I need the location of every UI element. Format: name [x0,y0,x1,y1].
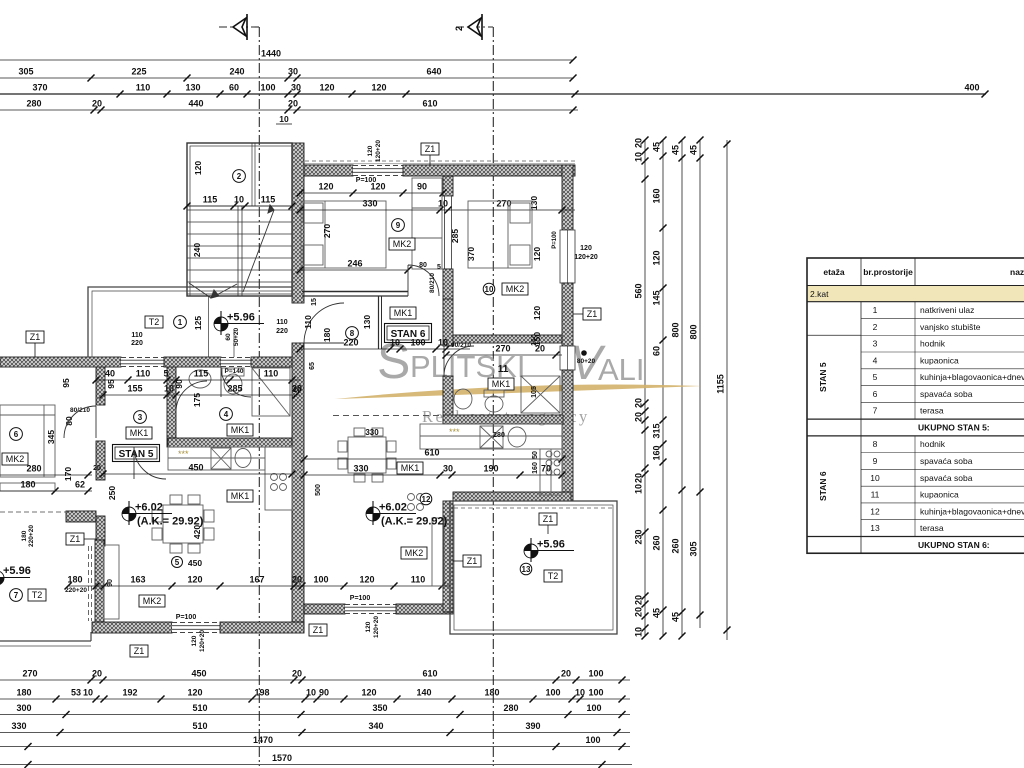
wall stan5 interior horiz [168,438,292,447]
dim top line D [0,99,578,114]
svg-text:***: *** [449,427,460,437]
svg-text:285: 285 [450,229,460,243]
label T2 terrace13 [544,570,562,582]
svg-text:150: 150 [531,334,538,346]
svg-text:330: 330 [11,721,26,731]
svg-text:20: 20 [634,412,644,422]
svg-text:kupaonica: kupaonica [920,355,959,365]
room number 6 [10,428,23,441]
svg-text:100: 100 [545,688,560,698]
svg-text:90: 90 [107,579,114,587]
dim right line 1 [634,137,649,640]
section line 2 vertical [492,27,494,766]
svg-text:Z1: Z1 [543,514,554,524]
terrace1 ext line a [208,296,210,357]
svg-text:P=100: P=100 [350,595,371,602]
svg-text:120+20: 120+20 [199,630,206,652]
svg-text:13: 13 [522,565,531,574]
svg-text:9: 9 [873,456,878,466]
svg-text:175: 175 [192,393,202,407]
svg-text:167: 167 [249,575,264,585]
room number 8 [346,327,359,340]
svg-text:220: 220 [276,328,288,335]
svg-text:11: 11 [498,364,509,375]
svg-text:440: 440 [188,99,203,109]
svg-text:MK2: MK2 [393,239,412,249]
dim top small 10 [276,114,292,124]
svg-text:10: 10 [279,114,289,124]
wall stan6 right lower vertical [443,501,453,612]
svg-text:260: 260 [652,535,662,550]
svg-text:Z1: Z1 [587,309,598,319]
dashed line hall8 [333,415,443,417]
svg-text:7: 7 [14,591,19,600]
svg-text:90: 90 [417,182,427,192]
dim apt6 180-62 [0,480,92,495]
svg-text:140: 140 [416,688,431,698]
label Z1 terrace13 top [539,513,557,525]
svg-text:10: 10 [438,338,448,348]
svg-text:2: 2 [454,26,464,31]
wall stub apt6 bottom [66,511,96,522]
svg-text:110: 110 [136,83,151,93]
svg-text:vanjsko stubište: vanjsko stubište [920,322,981,332]
svg-text:120: 120 [370,182,385,192]
wall stan6 bottom seg b [396,604,453,614]
door P=100 stan5 bottom [172,622,220,633]
dim stairs 115-10-115 [184,195,296,210]
dim bottom row 3 [0,703,630,718]
svg-text:8: 8 [873,439,878,449]
room number 1 terrace [174,316,187,329]
dining6 table set [338,428,396,482]
svg-text:250: 250 [107,486,117,500]
svg-text:220: 220 [131,340,143,347]
svg-text:45: 45 [652,608,662,618]
svg-text:345: 345 [46,430,56,444]
room9 bed [301,201,386,268]
dim bottom row 4 [0,721,630,736]
svg-text:115: 115 [261,195,276,205]
label MK1 bath11 [488,378,514,390]
wall stan6 step horiz [453,492,571,501]
svg-text:100: 100 [586,703,601,713]
window P=100 in top wall [353,165,403,176]
svg-text:60: 60 [225,333,232,341]
dim bottom row 5 [0,735,630,750]
stove6 [408,494,424,511]
kitchen5 sink [211,448,251,469]
svg-text:240: 240 [229,67,244,77]
svg-text:45: 45 [671,145,681,155]
dim bath11 top [443,344,563,359]
svg-text:260: 260 [671,538,681,553]
svg-text:T2: T2 [32,590,43,600]
svg-text:53: 53 [71,688,81,698]
svg-text:natkriveni ulaz: natkriveni ulaz [920,305,974,315]
svg-text:610: 610 [422,99,437,109]
wall stan5 left lower [95,540,104,622]
svg-text:20: 20 [634,607,644,617]
svg-text:spavaća soba: spavaća soba [920,473,973,483]
label MK2 room10 [502,283,528,295]
wall stan6 bottom seg a [304,604,345,614]
door P=140 stan5 entry [221,357,251,367]
svg-text:110: 110 [411,575,426,585]
svg-text:280: 280 [503,703,518,713]
svg-text:110: 110 [136,369,151,379]
svg-text:1440: 1440 [261,49,281,59]
svg-text:MK1: MK1 [401,463,420,473]
z1 t13 tick [547,525,549,534]
svg-text:100: 100 [260,83,275,93]
svg-text:160: 160 [532,462,539,474]
wall rooms9-10 top stub [443,176,453,196]
svg-text:45: 45 [689,145,699,155]
svg-text:120: 120 [365,621,372,632]
svg-text:220+20: 220+20 [28,525,35,547]
svg-text:MK2: MK2 [405,548,424,558]
svg-text:20: 20 [292,669,302,679]
door arc bath11 [444,346,474,376]
kitchen5 stove [271,474,287,491]
wall stan5 top seg a [0,357,121,367]
living6 couch [432,518,444,586]
svg-text:370: 370 [32,83,47,93]
svg-text:10: 10 [164,384,174,394]
svg-text:180: 180 [67,575,82,585]
svg-text:340: 340 [368,721,383,731]
svg-text:20: 20 [634,473,644,483]
living5 table set [152,495,214,553]
door P=100 stan6 bottom [345,604,396,614]
svg-text:Z1: Z1 [467,556,478,566]
svg-text:70: 70 [541,464,551,474]
svg-text:Z1: Z1 [134,646,145,656]
wall stan5 top seg b [164,357,221,367]
svg-text:560: 560 [634,283,644,298]
svg-text:5: 5 [437,264,441,271]
room10 bed [468,201,532,268]
svg-text:2.kat: 2.kat [810,289,829,299]
kitchen6 hob circles [546,451,560,475]
svg-text:110: 110 [303,315,313,329]
room number 12 [420,493,432,505]
terrace1 border [88,287,292,357]
level marker apt7 partial [0,571,30,585]
bath11 washbasin [454,389,472,409]
svg-text:350: 350 [372,703,387,713]
label Z1 topleft [26,331,44,343]
bath5 shower [252,368,290,416]
svg-text:hodnik: hodnik [920,339,946,349]
label MK2 living5 [139,595,165,607]
svg-text:190: 190 [483,464,498,474]
svg-text:270: 270 [22,669,37,679]
svg-text:305: 305 [689,541,699,556]
svg-text:terasa: terasa [920,406,944,416]
svg-text:100: 100 [313,575,328,585]
svg-text:Z1: Z1 [425,144,436,154]
svg-text:20: 20 [634,138,644,148]
dim bottom row 1 [0,669,630,684]
level mark +6.02 stan5 [122,501,172,525]
svg-text:610: 610 [424,448,439,458]
svg-text:Z1: Z1 [30,332,41,342]
svg-text:330: 330 [365,428,379,437]
z1 topleft leader [34,343,36,357]
svg-text:MK2: MK2 [506,284,525,294]
svg-text:kupaonica: kupaonica [920,490,959,500]
dim room9 row2 [297,199,576,214]
svg-text:20: 20 [92,669,102,679]
svg-text:10: 10 [634,484,644,494]
svg-text:130: 130 [362,315,372,329]
dim right line 4 [689,137,704,629]
svg-text:kuhinja+blagovaonica+dnevni: kuhinja+blagovaonica+dnevni [920,372,1024,382]
svg-text:120+20: 120+20 [373,616,380,638]
svg-text:MK2: MK2 [6,454,25,464]
svg-text:etaža: etaža [823,267,845,277]
room number 9 [392,219,405,232]
svg-text:120+20: 120+20 [574,254,598,261]
dim apt6 280 [0,464,92,479]
dim stan5 hall2 [100,384,303,399]
svg-text:120: 120 [532,306,542,320]
svg-text:450: 450 [191,669,206,679]
svg-text:1570: 1570 [272,753,292,763]
svg-text:400: 400 [964,83,979,93]
door arc apt6 [64,406,96,438]
bath5 washbasin [189,370,211,388]
svg-text:20: 20 [634,595,644,605]
partition rooms9-10 thin [445,196,452,269]
svg-text:***: *** [178,449,189,459]
svg-text:30: 30 [291,83,301,93]
svg-text:180: 180 [21,530,28,541]
svg-text:160: 160 [652,445,662,460]
z1 t13 left leader [453,560,463,562]
dim hall8 row [297,338,471,353]
window right wall lower [560,346,575,370]
svg-text:10: 10 [634,152,644,162]
svg-text:naziv prostorije: naziv prostorije [1010,267,1024,277]
dim right line 3 [671,137,686,640]
svg-text:450: 450 [188,463,203,473]
dim room9 246 [297,259,412,274]
svg-text:145: 145 [652,290,662,305]
svg-text:80: 80 [419,262,427,269]
svg-text:640: 640 [426,67,441,77]
label Z1 left [66,533,84,545]
z1 right leader [573,313,583,315]
svg-text:280: 280 [493,432,505,439]
svg-text:220: 220 [343,338,358,348]
svg-text:198: 198 [254,688,269,698]
svg-text:115: 115 [203,195,218,205]
svg-text:120: 120 [580,245,592,252]
svg-text:95: 95 [61,378,71,388]
svg-text:13: 13 [870,523,880,533]
svg-text:105: 105 [531,386,538,398]
svg-text:110: 110 [131,332,142,339]
svg-text:20: 20 [92,99,102,109]
wall stan5 bath vertical [167,367,176,447]
watermark swoosh gold [335,385,702,399]
wall bath11 top [453,335,562,343]
window right wall upper [560,230,575,283]
svg-text:163: 163 [130,575,145,585]
svg-text:160: 160 [652,188,662,203]
label MK2 room9 [389,238,415,250]
svg-text:180: 180 [484,688,499,698]
svg-text:5: 5 [163,369,168,379]
label MK2 living6 [401,547,427,559]
svg-text:20: 20 [561,669,571,679]
svg-text:115: 115 [194,369,209,379]
svg-text:50: 50 [532,451,539,459]
svg-text:500: 500 [315,484,322,496]
svg-text:6: 6 [873,389,878,399]
svg-text:370: 370 [466,247,476,261]
svg-text:180: 180 [322,328,332,342]
svg-text:STAN 6: STAN 6 [818,471,828,501]
svg-text:280: 280 [26,464,41,474]
room number 7 [10,589,23,602]
svg-text:100: 100 [588,688,603,698]
dim bottom row 6 [0,753,632,768]
svg-text:spavaća soba: spavaća soba [920,389,973,399]
svg-text:90: 90 [174,379,184,389]
svg-text:T2: T2 [548,571,559,581]
door arc room9 [408,265,439,296]
room number 4 [220,408,233,421]
svg-text:4: 4 [873,355,878,365]
label MK1 kupaonica5 [227,424,253,436]
svg-text:MK1: MK1 [130,428,149,438]
label Z1 right [583,308,601,320]
svg-text:2: 2 [237,172,242,181]
svg-text:100: 100 [585,735,600,745]
bath11 toilet [484,390,504,412]
svg-text:62: 62 [75,480,85,490]
wall apt6-stan5 divider seg c [96,516,105,546]
svg-text:45: 45 [671,612,681,622]
level mark +5.96 terrace1 [214,311,264,335]
dot right wall [581,350,587,356]
label STAN 6 [385,324,432,343]
section flag 1 [219,14,259,40]
dim top line B [0,67,577,82]
svg-text:800: 800 [689,324,699,339]
svg-text:2: 2 [873,322,878,332]
svg-text:UKUPNO STAN 5:: UKUPNO STAN 5: [918,422,990,432]
dim stan5 living row [65,575,451,590]
svg-text:220+20: 220+20 [65,587,87,594]
svg-text:20: 20 [93,465,101,472]
svg-text:125: 125 [193,316,203,330]
dim right line 5 [716,140,731,640]
svg-text:+6.02: +6.02 [379,502,407,514]
wall rooms9-10 bottom stub [443,269,453,299]
wall stan6 right seg b [562,283,573,346]
door arc hodnik5 [134,447,166,479]
svg-text:10: 10 [575,688,585,698]
svg-text:170: 170 [63,467,73,481]
svg-text:12: 12 [870,506,880,516]
wall stan6 right seg a [562,165,573,230]
svg-text:30: 30 [288,67,298,77]
room number 13 [520,563,532,575]
svg-text:60: 60 [652,346,662,356]
svg-text:10: 10 [870,473,880,483]
svg-text:T2: T2 [149,317,160,327]
kitchen6 sink [480,426,526,448]
window 110-220 in stan5 top wall [121,357,164,367]
svg-text:95: 95 [106,379,116,389]
svg-text:10: 10 [634,627,644,637]
bath5 toilet [222,368,244,394]
svg-text:+5.96: +5.96 [3,565,31,577]
svg-text:390: 390 [525,721,540,731]
door leaf apt6 [95,406,97,438]
svg-text:225: 225 [131,67,146,77]
svg-text:330: 330 [362,199,377,209]
svg-text:10: 10 [83,688,93,698]
svg-text:120: 120 [318,182,333,192]
svg-text:+6.02: +6.02 [135,502,163,514]
svg-text:610: 610 [422,669,437,679]
svg-text:8: 8 [350,329,355,338]
svg-text:130: 130 [529,196,539,210]
dim bottom row 2 [0,688,630,703]
svg-text:120: 120 [191,635,198,646]
svg-text:12: 12 [422,495,431,504]
svg-text:20: 20 [288,99,298,109]
label Z1 top [421,143,439,155]
z1 top leader [429,155,431,165]
svg-text:ALI: ALI [598,352,645,387]
svg-text:246: 246 [347,259,362,269]
svg-text:MK1: MK1 [231,491,250,501]
svg-text:60: 60 [229,83,239,93]
svg-text:MK1: MK1 [492,379,511,389]
svg-text:120: 120 [371,83,386,93]
svg-text:9: 9 [396,221,401,230]
dim kitchen5 450 [100,463,296,478]
svg-text:240: 240 [192,243,202,257]
door arc stan6 entry [304,303,344,343]
svg-text:5: 5 [873,372,878,382]
dim stan5 hall [93,369,301,384]
svg-text:800: 800 [671,322,681,337]
svg-text:MK2: MK2 [143,596,162,606]
terrace1 ext line b [233,330,235,357]
svg-text:terasa: terasa [920,523,944,533]
svg-text:110: 110 [264,369,279,379]
svg-text:192: 192 [122,688,137,698]
svg-text:kuhinja+blagovaonica+dnevni: kuhinja+blagovaonica+dnevni [920,506,1024,516]
wall below bath11 [443,415,563,424]
svg-text:330: 330 [353,464,368,474]
svg-text:Z1: Z1 [313,625,324,635]
svg-text:UKUPNO STAN 6:: UKUPNO STAN 6: [918,540,990,550]
label STAN 5 [113,445,160,462]
svg-text:90: 90 [319,688,329,698]
dim right line 2 [652,137,667,640]
svg-text:510: 510 [192,703,207,713]
label T2 terrace1 [145,316,163,328]
